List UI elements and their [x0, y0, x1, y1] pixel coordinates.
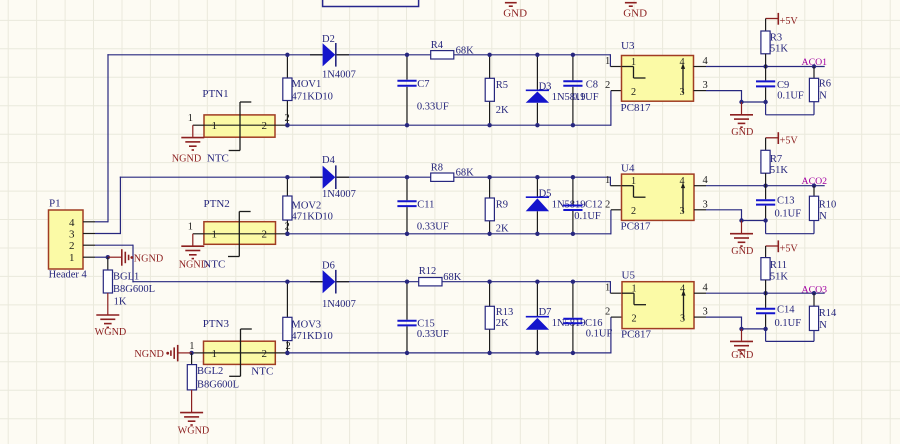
svg-text:0.33UF: 0.33UF: [417, 222, 449, 233]
thermistor PTN2 label: [204, 198, 230, 210]
C8 labels: [572, 80, 599, 104]
power symbol GND (channel 2): [730, 221, 753, 258]
svg-text:GND: GND: [731, 127, 753, 138]
svg-text:2: 2: [605, 307, 610, 318]
svg-text:+5V: +5V: [780, 244, 799, 255]
wire channel-2 diode pin stubs: [310, 176, 349, 178]
svg-text:1: 1: [212, 229, 218, 241]
U5 inside pin names: [632, 284, 686, 325]
svg-text:4: 4: [703, 56, 709, 67]
wire channel-1 top rail: [107, 54, 621, 66]
svg-text:U4: U4: [621, 163, 635, 175]
C9 labels: [777, 80, 804, 102]
svg-text:PC817: PC817: [621, 102, 651, 114]
opto-coupler U3 label: [621, 40, 635, 52]
svg-text:N: N: [819, 91, 827, 102]
capacitor C8 (0.1UF): [563, 55, 582, 125]
svg-text:2: 2: [605, 80, 610, 91]
svg-text:MOV2: MOV2: [292, 200, 322, 211]
svg-text:D3: D3: [539, 82, 552, 93]
junction PTN1 pin2 / MOV1: [285, 123, 289, 127]
svg-text:3: 3: [703, 199, 708, 210]
svg-text:1N4007: 1N4007: [322, 70, 356, 81]
R7 labels: [770, 154, 789, 176]
svg-text:68K: 68K: [443, 272, 462, 283]
partial component box (cut off at top): [323, 0, 419, 7]
U5 outside pin numbers: [605, 283, 709, 318]
svg-text:MOV1: MOV1: [292, 79, 322, 90]
svg-text:2: 2: [285, 222, 290, 233]
wire channel-2 bottom rail: [287, 210, 621, 235]
svg-text:2: 2: [286, 341, 291, 352]
wire MOV1 stubs: [286, 55, 288, 125]
diode D7 (1N5819): [526, 317, 549, 330]
wire MOV3 stubs: [286, 282, 288, 353]
D7 labels: [539, 307, 586, 329]
connector P1 label: [49, 198, 61, 210]
junction PTN2 pin2 / MOV2: [285, 232, 289, 236]
svg-text:R6: R6: [819, 78, 831, 89]
power symbol GND (channel 1): [730, 102, 753, 138]
svg-text:Header 4: Header 4: [49, 270, 88, 281]
power symbol +5V (channel 3): [766, 240, 799, 254]
varistor MOV1 (471KD10): [283, 78, 292, 101]
wire U5 pin3 to ground node: [694, 317, 766, 329]
wire PTN1 pin1 to NGND: [193, 125, 204, 137]
svg-text:U5: U5: [622, 270, 636, 282]
svg-text:D5: D5: [539, 189, 552, 200]
resistor R10 (N): [809, 196, 818, 220]
svg-text:471KD10: 471KD10: [292, 92, 333, 103]
opto-coupler U4 label: [621, 163, 635, 175]
svg-text:NTC: NTC: [203, 259, 225, 271]
svg-text:3: 3: [680, 206, 685, 217]
junction PTN3 pin2 / MOV3: [285, 351, 289, 355]
power symbol WGND (bottom): [178, 413, 210, 437]
svg-text:NTC: NTC: [207, 152, 229, 164]
wire channel-3 diode pin stubs: [310, 281, 349, 283]
diode D3 (1N5819): [526, 90, 549, 103]
svg-text:+5V: +5V: [780, 135, 799, 146]
svg-text:1K: 1K: [114, 297, 127, 308]
wire BGL2 to WGND: [191, 390, 193, 413]
svg-text:N: N: [819, 211, 827, 222]
svg-text:1: 1: [189, 341, 194, 352]
resistor R9 (2K): [485, 198, 494, 221]
PTN3 outside pin 1 number: [189, 341, 194, 352]
U4 value PC817: [621, 220, 651, 232]
svg-text:B8G600L: B8G600L: [113, 284, 155, 295]
wire R5 stubs: [489, 55, 491, 125]
R10 labels: [819, 200, 837, 223]
diode D4 (1N4007): [323, 165, 336, 189]
D2 labels: [322, 34, 356, 81]
wire U4 pin4 to ACO2: [694, 185, 825, 187]
PTN2 outside pin 1 number: [188, 222, 193, 233]
wire U3 pin3 to ground node: [694, 90, 766, 102]
R5 labels: [496, 80, 509, 116]
U5 value PC817: [621, 329, 651, 341]
opto-coupler U3 (PC817): [622, 56, 694, 102]
svg-text:3: 3: [703, 80, 708, 91]
varistor MOV2 (471KD10): [283, 196, 292, 220]
R4 labels: [431, 40, 474, 56]
svg-text:471KD10: 471KD10: [291, 331, 332, 342]
resistor R3 (51K): [761, 31, 770, 54]
svg-text:0.1UF: 0.1UF: [777, 91, 804, 102]
wire U4 pin3 to ground node: [694, 209, 766, 220]
varistor MOV3 (471KD10): [283, 317, 292, 340]
diode D5 (1N5819): [526, 197, 549, 211]
capacitor C9 (0.1UF): [756, 67, 775, 103]
C12 labels: [574, 200, 602, 223]
wire ground bus to R6: [766, 102, 814, 115]
opto-coupler U4 (PC817): [622, 174, 695, 220]
PTN2 value NTC: [203, 259, 225, 271]
ground (top, cut off): [503, 3, 527, 20]
svg-text:R13: R13: [496, 307, 514, 318]
svg-text:R4: R4: [431, 40, 444, 51]
opto-coupler U5 label: [622, 270, 636, 282]
svg-text:1: 1: [212, 120, 218, 132]
resistor BGL1: [103, 270, 112, 293]
svg-text:4: 4: [680, 284, 685, 295]
capacitor C11 (0.33UF): [397, 177, 416, 234]
junction ground node C9: [763, 100, 767, 104]
svg-text:51K: 51K: [770, 44, 789, 55]
svg-text:BGL1: BGL1: [113, 271, 139, 282]
C7 labels: [417, 79, 449, 113]
svg-text:51K: 51K: [770, 165, 789, 176]
svg-text:2K: 2K: [496, 224, 509, 235]
svg-text:0.1UF: 0.1UF: [574, 211, 601, 222]
PTN2 pin line through body: [204, 233, 288, 235]
junction R14 stem: [812, 291, 816, 295]
capacitor C16 (0.1UF): [563, 282, 582, 353]
svg-text:GND: GND: [731, 246, 753, 257]
wire BGL1 top pin: [107, 257, 109, 270]
net label ACO1: [802, 57, 828, 68]
resistor R12 (68K): [419, 278, 442, 286]
svg-text:1N4007: 1N4007: [322, 189, 356, 200]
svg-text:N: N: [819, 320, 827, 331]
junction R pullup/C13: [763, 184, 767, 188]
power symbol NGND (PTN3): [134, 345, 191, 362]
power symbol NGND (PTN1): [172, 138, 205, 165]
svg-text:BGL2: BGL2: [197, 366, 223, 377]
R11 labels: [770, 260, 789, 283]
power symbol +5V (channel 1): [766, 13, 799, 27]
svg-text:NTC: NTC: [251, 366, 273, 378]
thermistor PTN3 (NTC) body: [204, 341, 276, 364]
svg-text:P1: P1: [49, 198, 61, 210]
svg-text:1: 1: [605, 283, 610, 294]
wire P1 pin1 to NGND node: [83, 256, 108, 258]
resistor R14 (N): [809, 306, 818, 330]
wire D3 stubs: [536, 55, 538, 125]
U3 internal LED symbol: [622, 67, 646, 79]
junction R pullup/C9: [763, 64, 767, 68]
svg-text:R9: R9: [496, 200, 508, 211]
svg-text:3: 3: [69, 229, 75, 241]
wire channel-1 bottom rail: [287, 91, 621, 126]
svg-text:PC817: PC817: [621, 220, 651, 232]
PTN2 outside pin 2 number: [285, 222, 290, 233]
wire ACO2 to R10: [813, 186, 815, 197]
U4 internal transistor arrow: [681, 183, 685, 213]
capacitor C12 (0.1UF): [563, 177, 582, 234]
capacitor C15 (0.33UF): [397, 282, 416, 353]
svg-text:1: 1: [631, 176, 636, 187]
U4 inside pin names: [631, 176, 685, 217]
svg-text:2: 2: [631, 206, 636, 217]
net label ACO2: [802, 176, 828, 187]
svg-text:U3: U3: [621, 40, 635, 52]
junction ground node left: [739, 218, 743, 222]
svg-text:C9: C9: [777, 80, 789, 91]
svg-text:4: 4: [703, 175, 709, 186]
svg-text:0.1UF: 0.1UF: [572, 92, 599, 103]
svg-text:1: 1: [212, 348, 218, 360]
wire channel-3 top rail: [132, 281, 621, 293]
svg-text:1: 1: [605, 175, 610, 186]
junction ground node C14: [763, 327, 767, 331]
svg-text:0.1UF: 0.1UF: [586, 329, 613, 340]
wire +5V to R7: [765, 138, 767, 151]
diode D2 (1N4007): [323, 43, 336, 67]
resistor R13 (2K): [485, 306, 494, 329]
svg-text:WGND: WGND: [95, 327, 127, 338]
svg-text:1N4007: 1N4007: [322, 299, 356, 310]
resistor R6 (N): [809, 78, 818, 101]
svg-text:4: 4: [680, 57, 685, 68]
U3 value PC817: [621, 102, 651, 114]
PTN3 NTC strike mark: [229, 329, 252, 376]
PTN3 outside pin 2 number: [286, 341, 291, 352]
resistor R4 (68K): [431, 51, 454, 59]
svg-text:PTN2: PTN2: [204, 198, 230, 210]
wire +5V to R11: [765, 246, 767, 258]
power symbol NGND (at P1 pin1): [108, 249, 163, 266]
svg-text:1: 1: [69, 252, 75, 264]
svg-text:+5V: +5V: [780, 16, 799, 27]
wire PTN3 pin1 to NGND node: [192, 352, 204, 354]
svg-text:471KD10: 471KD10: [292, 212, 333, 223]
junction PTN3 pin1 / BGL2 / NGND: [189, 351, 193, 355]
svg-text:C13: C13: [777, 196, 795, 207]
junctions channel-2 bottom rail: [285, 232, 575, 236]
power symbol GND (channel 3): [730, 329, 753, 361]
svg-text:D2: D2: [322, 34, 335, 45]
svg-text:PTN3: PTN3: [203, 318, 230, 330]
PTN3 pin line through body: [204, 352, 288, 354]
svg-text:3: 3: [703, 307, 708, 318]
svg-text:C15: C15: [417, 319, 435, 330]
U3 inside pin names: [631, 57, 685, 98]
svg-text:C12: C12: [585, 200, 603, 211]
diode D6 (1N4007): [323, 270, 336, 294]
capacitor C7 (0.33UF): [397, 55, 416, 125]
wire P1 pin4 to channel-1 feed: [83, 54, 108, 222]
svg-text:B8G600L: B8G600L: [197, 379, 239, 390]
svg-text:2: 2: [285, 113, 290, 124]
R8 labels: [431, 162, 474, 178]
svg-text:C8: C8: [586, 80, 598, 91]
junction ground node left: [739, 100, 743, 104]
wire P1 pin2 to channel-3 feed: [83, 245, 133, 283]
svg-text:1: 1: [631, 57, 636, 68]
PTN1 outside pin 2 number: [285, 113, 290, 124]
U4 outside pin numbers: [605, 175, 709, 210]
svg-text:R3: R3: [770, 32, 782, 43]
C14 labels: [775, 305, 802, 330]
svg-text:R10: R10: [819, 200, 837, 211]
svg-text:C7: C7: [417, 79, 429, 90]
PTN2 NTC strike mark: [228, 212, 251, 257]
svg-text:68K: 68K: [456, 167, 475, 178]
capacitor C13 (0.1UF): [756, 186, 775, 221]
svg-text:0.1UF: 0.1UF: [775, 318, 802, 329]
svg-text:2K: 2K: [496, 318, 509, 329]
svg-text:D6: D6: [322, 261, 335, 272]
junction R10 stem: [812, 184, 816, 188]
svg-text:2: 2: [605, 199, 610, 210]
svg-text:2: 2: [69, 240, 75, 252]
svg-text:R14: R14: [819, 308, 837, 319]
svg-text:4: 4: [703, 283, 709, 294]
C16 labels: [585, 318, 613, 340]
svg-text:4: 4: [69, 217, 75, 229]
svg-text:0.33UF: 0.33UF: [417, 329, 449, 340]
PTN1 outside pin 1 number: [188, 113, 193, 124]
net label ACO3: [802, 285, 828, 296]
svg-text:NGND: NGND: [172, 153, 201, 164]
opto-coupler U5 (PC817): [622, 282, 694, 329]
resistor R8 (68K): [431, 173, 454, 181]
wire BGL1 to WGND: [107, 293, 109, 315]
wire U5 pin4 to ACO3: [694, 292, 825, 294]
thermistor PTN1 label: [202, 88, 228, 100]
U4 internal LED symbol: [622, 186, 646, 198]
svg-text:3: 3: [680, 313, 685, 324]
svg-text:C14: C14: [777, 305, 795, 316]
svg-text:R11: R11: [770, 260, 787, 271]
power symbol NGND (PTN2): [179, 246, 208, 271]
power symbol WGND (left): [95, 315, 127, 338]
wire channel-2 top rail: [120, 177, 622, 186]
svg-text:2: 2: [632, 313, 637, 324]
wire R7 to pin4 rail: [765, 173, 767, 186]
resistor BGL2: [187, 365, 196, 390]
PTN3 inside pin names: [212, 348, 268, 360]
connector P1 (Header 4): [49, 210, 84, 269]
R6 labels: [819, 78, 831, 101]
svg-text:GND: GND: [503, 7, 527, 19]
junctions channel-3 bottom rail: [285, 351, 575, 355]
wire MOV2 stubs: [286, 177, 288, 234]
wire R9 stubs: [489, 177, 491, 234]
svg-text:WGND: WGND: [178, 425, 210, 436]
wire P1 pin3 to channel-2 feed: [83, 177, 120, 235]
PTN1 inside pin names: [212, 120, 268, 132]
thermistor PTN3 label: [203, 318, 230, 330]
svg-text:51K: 51K: [770, 272, 789, 283]
wire ACO1 to R6: [813, 67, 815, 79]
PTN1 pin line through body: [204, 124, 288, 126]
svg-text:0.33UF: 0.33UF: [417, 101, 449, 112]
resistor R7 (51K): [761, 150, 770, 173]
svg-text:2: 2: [262, 120, 268, 132]
svg-text:4: 4: [680, 176, 685, 187]
svg-text:R8: R8: [431, 162, 443, 173]
R12 labels: [419, 266, 462, 283]
PTN1 NTC strike mark: [229, 102, 252, 151]
wire R3 to pin4 rail: [765, 54, 767, 67]
ground (top right, cut off): [623, 3, 647, 20]
svg-text:C11: C11: [417, 200, 434, 211]
svg-text:D7: D7: [539, 307, 552, 318]
R3 labels: [770, 32, 789, 54]
thermistor PTN1 (NTC) body: [204, 115, 275, 137]
capacitor C14 (0.1UF): [756, 293, 775, 329]
C13 labels: [775, 196, 802, 220]
svg-text:GND: GND: [623, 7, 647, 19]
wire R13 stubs: [489, 282, 491, 353]
MOV1 labels: [292, 79, 333, 103]
wire PTN2 pin1 to NGND: [193, 234, 204, 246]
wire ground bus to R14: [766, 329, 814, 342]
svg-text:1: 1: [632, 284, 637, 295]
wire U3 pin4 to ACO1: [694, 66, 825, 68]
power symbol +5V (channel 2): [766, 132, 799, 146]
wire D7 stubs: [536, 282, 538, 353]
junction ground node left: [739, 327, 743, 331]
wire channel-3 bottom rail: [287, 317, 621, 353]
junction R6 stem: [812, 64, 816, 68]
resistor R5 (2K): [485, 78, 494, 101]
svg-text:R12: R12: [419, 266, 437, 277]
svg-text:68K: 68K: [456, 45, 475, 56]
P1 pin numbers 4 3 2 1: [69, 217, 75, 264]
svg-text:2K: 2K: [496, 105, 509, 116]
svg-text:MOV3: MOV3: [291, 320, 321, 331]
U3 outside pin numbers: [605, 56, 709, 91]
svg-text:2: 2: [262, 229, 268, 241]
svg-text:2: 2: [631, 87, 636, 98]
PTN3 value NTC: [251, 366, 273, 378]
D5 labels: [539, 189, 586, 211]
wire R11 to pin4 rail: [765, 280, 767, 293]
MOV2 labels: [292, 200, 333, 222]
svg-text:PTN1: PTN1: [202, 88, 228, 100]
wire ground bus to R10: [766, 221, 814, 234]
PTN1 value NTC: [207, 152, 229, 164]
svg-text:2: 2: [262, 348, 268, 360]
R9 labels: [496, 200, 509, 235]
wire channel-1 diode pin stubs: [310, 54, 349, 56]
D6 labels: [322, 261, 356, 310]
BGL1 labels BGL1 / B8G600L / 1K: [113, 271, 155, 307]
wire D5 stubs: [536, 177, 538, 234]
D4 labels: [322, 155, 356, 200]
junctions channel-2 top rail: [285, 175, 575, 179]
U5 internal LED symbol: [622, 293, 646, 305]
svg-text:C16: C16: [585, 318, 603, 329]
svg-text:R7: R7: [770, 154, 782, 165]
junction R pullup/C14: [763, 291, 767, 295]
P1 value label Header 4: [49, 270, 88, 281]
PTN2 inside pin names: [212, 229, 268, 241]
